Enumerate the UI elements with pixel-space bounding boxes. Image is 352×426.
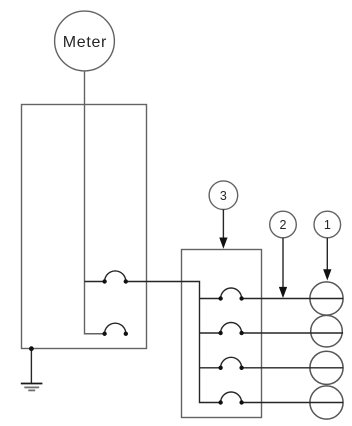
svg-text:3: 3	[220, 189, 227, 203]
svg-text:2: 2	[280, 218, 287, 232]
svg-text:1: 1	[324, 218, 331, 232]
svg-text:Meter: Meter	[63, 34, 107, 51]
